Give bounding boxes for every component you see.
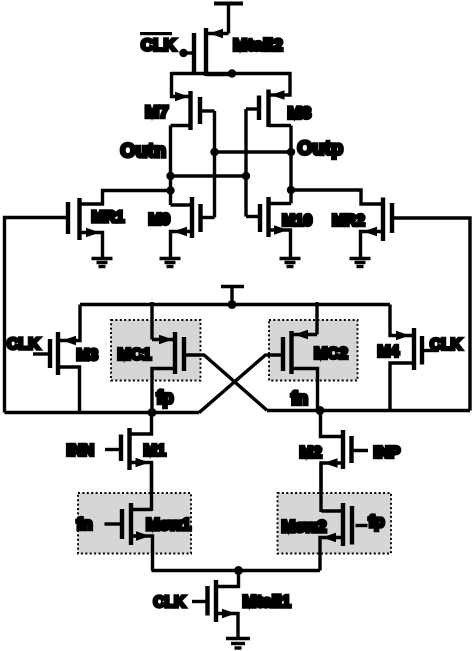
wire: bottom tail rail [152, 569, 321, 572]
wire: cross-couple diagonal MC2 gate to fp [199, 355, 266, 413]
svg-text:CLK: CLK [7, 336, 40, 353]
wire: Outp cross wire to M7/M9 gates [215, 150, 292, 153]
transistor Mtail1 [192, 571, 239, 639]
svg-text:Msw1: Msw1 [146, 516, 191, 534]
junction dot: M7 gate at Outp wire [210, 148, 218, 156]
transistor M10 [246, 197, 291, 258]
wire: cross-couple diagonal MC1 gate to fn [204, 355, 268, 411]
svg-text:CLK: CLK [154, 594, 187, 611]
wire: M1 source vertical into Msw1 [150, 463, 153, 512]
svg-text:M2: M2 [300, 445, 322, 462]
svg-text:Outp: Outp [298, 139, 344, 160]
ground (M10) [280, 259, 301, 267]
intermediate supply rail [80, 303, 390, 306]
transistor MR2 [291, 190, 392, 258]
svg-text:M8: M8 [288, 104, 312, 123]
wire: fn rail [267, 409, 470, 412]
ground (M9) [160, 259, 181, 267]
svg-text:INP: INP [374, 445, 401, 462]
wire: Outn cross wire to M8/M10 gates [171, 174, 247, 177]
transistor M2 [321, 411, 369, 512]
svg-text:M1: M1 [144, 443, 166, 460]
svg-text:Msw2: Msw2 [282, 518, 327, 536]
wire: Outp vertical (M8 drain to M10 drain) [289, 126, 292, 204]
right rail (MR2 gate to fn rail) [394, 218, 470, 411]
svg-text:M3: M3 [77, 347, 99, 364]
junction dot: Mtail2 drain on rail [228, 69, 236, 77]
transistor M9 [171, 197, 215, 258]
svg-text:CLK: CLK [430, 337, 463, 354]
svg-text:INN: INN [67, 443, 95, 460]
svg-text:Mtail2: Mtail2 [233, 36, 283, 55]
transistor MR1 [68, 191, 171, 259]
svg-text:fp: fp [369, 512, 385, 531]
transistor M4 [390, 305, 439, 412]
VDD supply symbol (top) [214, 4, 243, 34]
svg-text:Mtail1: Mtail1 [243, 593, 292, 611]
junction dot: M8 gate at Outn wire [242, 172, 250, 180]
transistor M8 [246, 72, 291, 127]
wire: Outn vertical (M7 drain to M9 drain) [169, 126, 172, 206]
svg-text:fp: fp [157, 388, 174, 408]
wire: M2 source vertical into Msw2 [319, 463, 322, 512]
MC1 dashed box [111, 320, 201, 381]
Msw1 dashed box [78, 493, 191, 554]
transistor M7 [171, 72, 215, 130]
svg-text:fn: fn [77, 515, 93, 534]
transistor MC2 [266, 302, 318, 411]
transistor MC1 [152, 302, 204, 413]
MC2 dashed box [269, 320, 358, 381]
ground (MR2) [350, 259, 371, 267]
ground (MR1) [92, 259, 113, 267]
wire: fp rail [5, 411, 200, 414]
svg-text:MR1: MR1 [92, 209, 125, 226]
transistor Msw2 [320, 503, 368, 571]
svg-text:Outn: Outn [121, 141, 167, 162]
svg-text:MC1: MC1 [118, 347, 152, 364]
junction dot: fp node [148, 408, 157, 417]
junction dot: Outp node [287, 148, 295, 156]
Msw2 dashed box [278, 493, 392, 554]
wire: Mtail2 drain rail to M7/M8 sources [171, 72, 292, 75]
junction dot: fn node [316, 406, 325, 415]
left rail (MR1 gate to fp rail) [5, 218, 67, 413]
svg-text:M9: M9 [149, 212, 171, 229]
svg-text:fn: fn [291, 389, 308, 409]
junction dot: VDD tap on rail [228, 300, 237, 309]
junction dot: CLKbar to Mtail2 gate [179, 49, 187, 57]
junction dot: MR2 drain at Outp vertical [287, 186, 295, 194]
VDD tap symbol (middle) [221, 287, 244, 305]
junction dot: Mtail1 drain on rail [234, 566, 243, 575]
svg-text:MR2: MR2 [332, 213, 365, 230]
svg-text:MC2: MC2 [314, 346, 348, 363]
transistor Mtail2 [183, 28, 233, 76]
svg-text:CLK: CLK [141, 36, 177, 55]
transistor Msw1 [105, 503, 153, 571]
ground (Mtail1) [226, 639, 250, 649]
transistor M3 [33, 305, 80, 413]
wire: M8/M10 gate vertical [244, 109, 247, 217]
junction dot: Outn node [166, 172, 174, 180]
wire: M7/M9 gate vertical [213, 111, 216, 218]
svg-text:M10: M10 [282, 213, 312, 230]
svg-text:M7: M7 [145, 103, 169, 122]
junction dot: MR1 drain at Outn vertical [166, 186, 174, 194]
label CLK-bar [140, 32, 177, 55]
transistor M1 [105, 413, 152, 512]
svg-text:M4: M4 [378, 344, 400, 361]
